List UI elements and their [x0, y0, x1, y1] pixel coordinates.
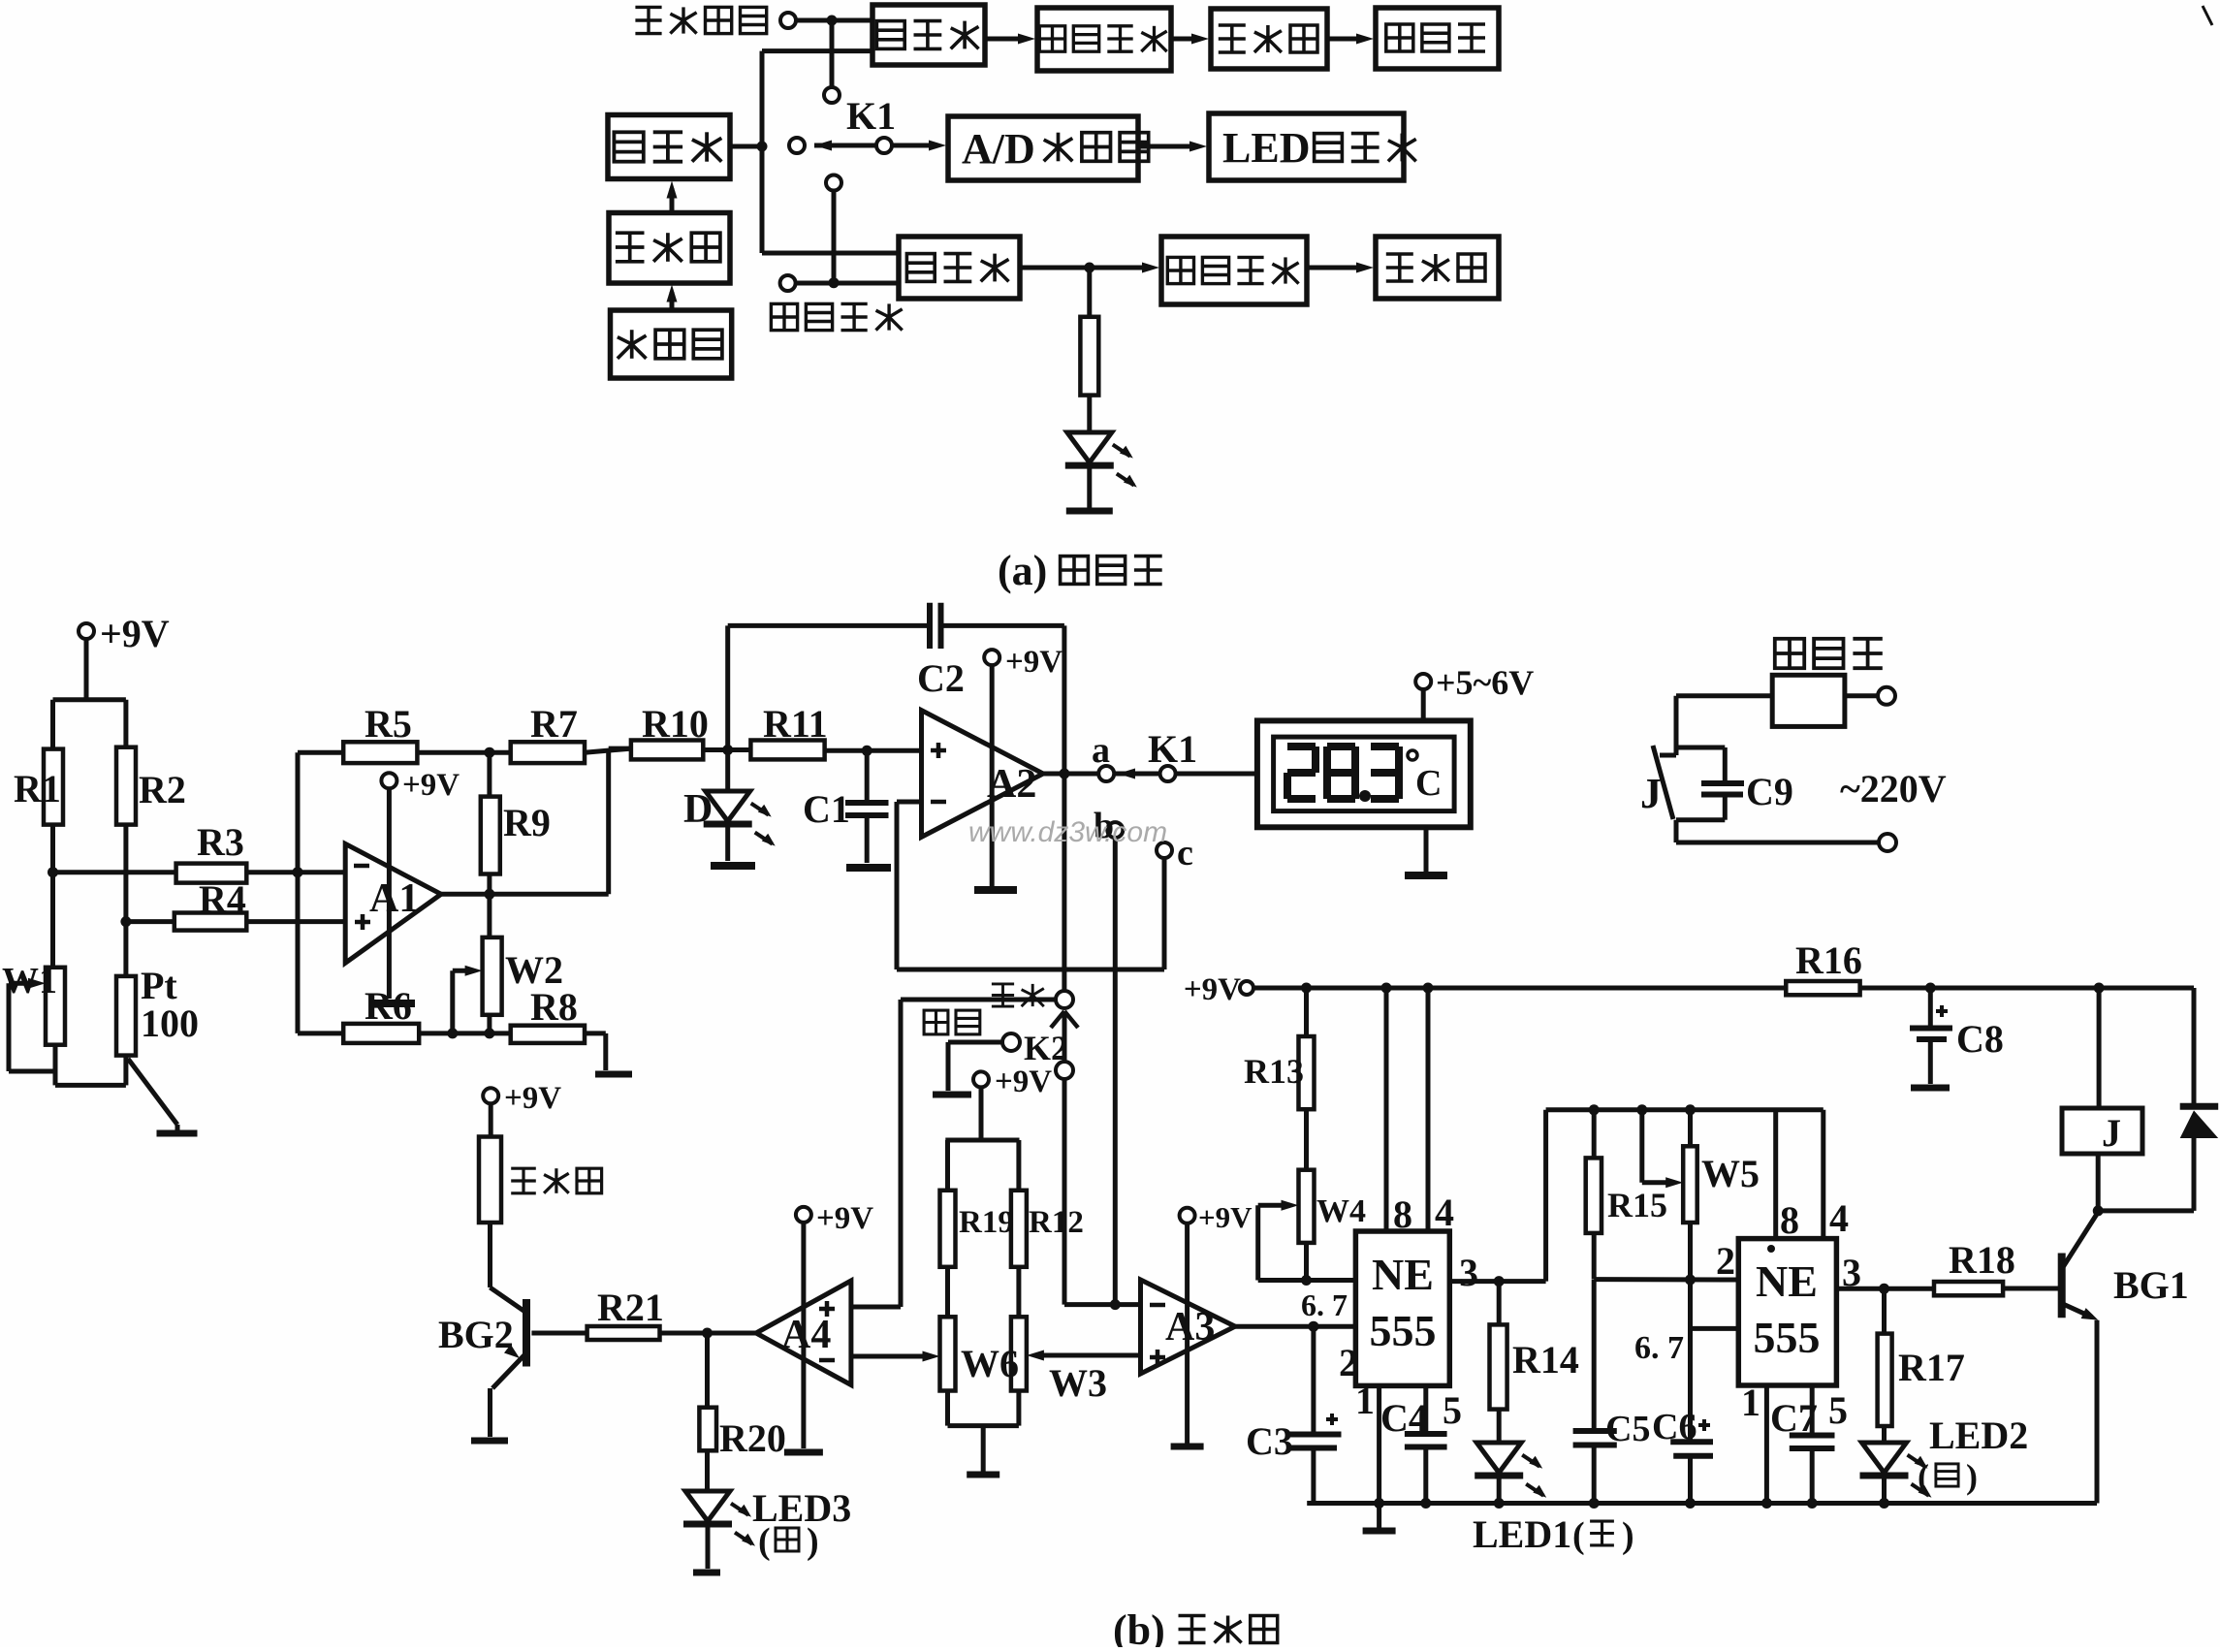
svg-text:2: 2	[1716, 1239, 1735, 1283]
svg-text:c: c	[1177, 833, 1193, 874]
svg-text:): )	[807, 1521, 819, 1562]
svg-text:R5: R5	[365, 702, 412, 746]
svg-text:K2: K2	[1024, 1029, 1068, 1067]
svg-text:R10: R10	[642, 702, 709, 746]
svg-text:6. 7: 6. 7	[1301, 1287, 1348, 1322]
svg-text:R11: R11	[763, 702, 828, 746]
svg-text:+9V: +9V	[816, 1201, 873, 1236]
svg-text:5: 5	[1443, 1388, 1462, 1432]
svg-text:R18: R18	[1949, 1238, 2015, 1282]
svg-text:1: 1	[1355, 1379, 1375, 1422]
svg-text:R3: R3	[197, 820, 244, 864]
svg-text:R19: R19	[959, 1205, 1014, 1240]
svg-text:K1: K1	[846, 94, 896, 138]
svg-text:R8: R8	[530, 985, 578, 1029]
svg-text:J: J	[2102, 1111, 2121, 1155]
svg-text:R21: R21	[597, 1286, 664, 1329]
svg-text:www.dz3w.com: www.dz3w.com	[968, 816, 1167, 848]
svg-text:+5~6V: +5~6V	[1436, 663, 1534, 702]
svg-text:+9V: +9V	[100, 612, 170, 655]
svg-text:+9V: +9V	[504, 1081, 561, 1116]
svg-text:(: (	[1918, 1457, 1929, 1496]
svg-text:a: a	[1092, 730, 1110, 771]
svg-text:+9V: +9V	[995, 1064, 1052, 1099]
svg-text:R16: R16	[1795, 938, 1862, 982]
svg-text:R14: R14	[1512, 1338, 1579, 1382]
svg-text:BG2: BG2	[438, 1313, 514, 1356]
svg-text:LED: LED	[1222, 124, 1310, 172]
svg-text:R13: R13	[1244, 1052, 1304, 1091]
svg-text:A2: A2	[987, 762, 1036, 807]
svg-text:J: J	[1640, 770, 1662, 817]
svg-text:C8: C8	[1956, 1017, 2004, 1061]
svg-text:4: 4	[1435, 1191, 1454, 1234]
svg-text:D: D	[683, 787, 713, 832]
svg-text:6. 7: 6. 7	[1634, 1330, 1684, 1366]
svg-text:): )	[1622, 1515, 1634, 1556]
svg-text:~220V: ~220V	[1840, 767, 1947, 810]
svg-text:R9: R9	[503, 801, 551, 844]
svg-text:555: 555	[1754, 1313, 1821, 1362]
svg-text:C4: C4	[1380, 1396, 1428, 1440]
svg-text:(b): (b)	[1113, 1606, 1165, 1647]
svg-text:R17: R17	[1898, 1346, 1965, 1389]
svg-text:A4: A4	[781, 1313, 831, 1357]
svg-text:R7: R7	[530, 702, 578, 746]
svg-text:W4: W4	[1316, 1193, 1366, 1229]
svg-text:5: 5	[1828, 1388, 1848, 1432]
svg-text:3: 3	[1459, 1251, 1478, 1294]
svg-text:A3: A3	[1165, 1305, 1215, 1350]
svg-text:+9V: +9V	[1198, 1200, 1253, 1234]
svg-text:(a): (a)	[998, 547, 1047, 594]
svg-text:(: (	[1572, 1515, 1585, 1556]
svg-text:555: 555	[1370, 1306, 1437, 1355]
svg-text:W6: W6	[961, 1342, 1019, 1385]
svg-text:C: C	[1415, 763, 1442, 804]
svg-text:R2: R2	[139, 768, 186, 811]
svg-text:R20: R20	[719, 1416, 786, 1460]
svg-text:C6: C6	[1652, 1407, 1697, 1447]
svg-text:R4: R4	[199, 877, 246, 921]
svg-text:4: 4	[1829, 1196, 1849, 1240]
svg-text:NE: NE	[1372, 1250, 1434, 1299]
svg-text:NE: NE	[1756, 1256, 1818, 1306]
svg-text:R6: R6	[365, 984, 412, 1028]
svg-text:8: 8	[1393, 1192, 1412, 1236]
svg-text:(: (	[758, 1521, 771, 1562]
svg-text:A/D: A/D	[962, 125, 1035, 173]
svg-text:): )	[1966, 1457, 1978, 1496]
svg-text:R1: R1	[14, 767, 61, 810]
svg-text:1: 1	[1741, 1381, 1760, 1424]
svg-text:W5: W5	[1701, 1152, 1760, 1195]
svg-text:C7: C7	[1770, 1396, 1818, 1440]
svg-text:LED1: LED1	[1473, 1512, 1571, 1556]
svg-text:C1: C1	[803, 787, 850, 831]
svg-text:K1: K1	[1148, 727, 1197, 771]
svg-text:W3: W3	[1049, 1361, 1107, 1405]
svg-text:C3: C3	[1246, 1419, 1293, 1463]
svg-text:LED2: LED2	[1929, 1414, 2028, 1457]
svg-text:C9: C9	[1746, 770, 1793, 813]
svg-text:8: 8	[1780, 1198, 1799, 1242]
svg-text:100: 100	[141, 1001, 199, 1045]
svg-text:C5: C5	[1605, 1409, 1650, 1449]
svg-text:R12: R12	[1029, 1205, 1084, 1240]
svg-text:W1: W1	[2, 961, 57, 1001]
svg-text:+9V: +9V	[1184, 972, 1241, 1007]
svg-text:+9V: +9V	[402, 768, 460, 803]
svg-text:R15: R15	[1607, 1186, 1667, 1224]
svg-text:C2: C2	[917, 656, 965, 700]
svg-text:3: 3	[1842, 1251, 1861, 1294]
svg-text:+9V: +9V	[1005, 645, 1062, 680]
svg-text:A1: A1	[369, 876, 419, 921]
svg-text:BG1: BG1	[2113, 1263, 2189, 1307]
